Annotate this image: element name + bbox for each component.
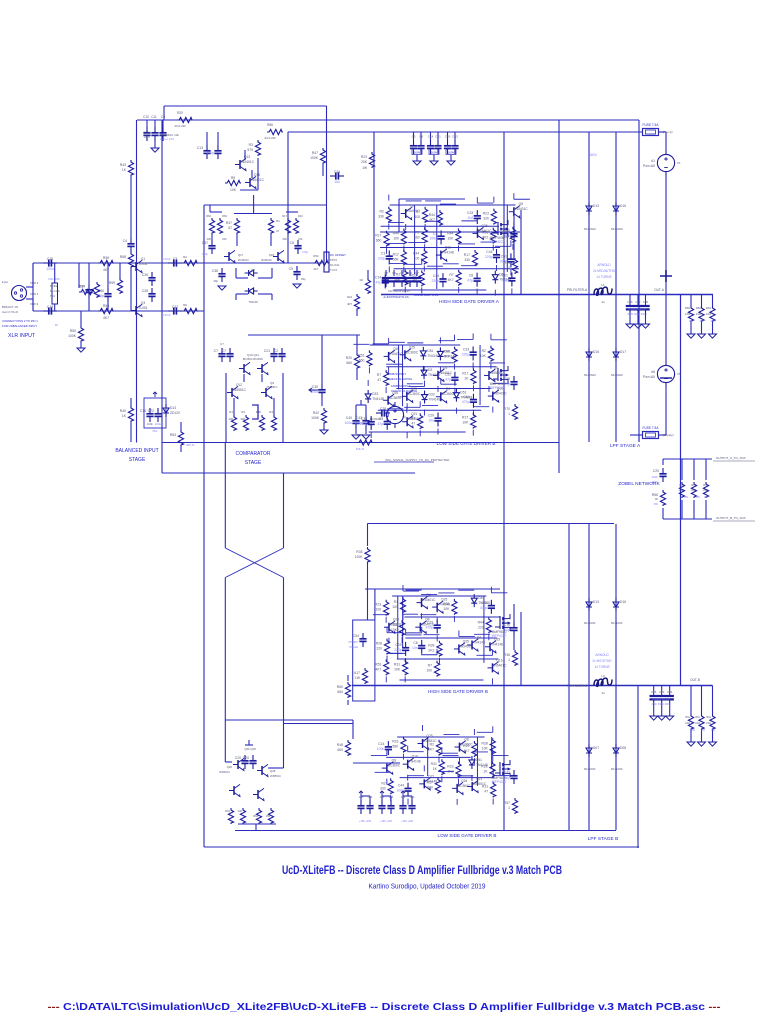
- svg-text:C37: C37: [202, 241, 208, 245]
- svg-text:56K: 56K: [393, 257, 400, 261]
- svg-text:160V: 160V: [589, 153, 597, 157]
- svg-text:C27: C27: [172, 305, 178, 309]
- svg-text:570: 570: [247, 148, 253, 152]
- svg-text:R42: R42: [313, 411, 319, 415]
- svg-text:C4: C4: [123, 239, 127, 243]
- svg-text:10K: 10K: [447, 236, 454, 240]
- svg-text:C3: C3: [379, 417, 383, 421]
- svg-text:R2: R2: [482, 349, 486, 353]
- svg-text:BC360C: BC360C: [408, 392, 421, 396]
- svg-text:10K: 10K: [480, 354, 487, 358]
- svg-text:R62: R62: [696, 306, 702, 310]
- svg-text:100: 100: [426, 669, 432, 673]
- svg-text:HIGH SIDE GATE DRIVER B: HIGH SIDE GATE DRIVER B: [428, 689, 488, 694]
- svg-text:660: 660: [346, 361, 352, 365]
- svg-text:Q4: Q4: [477, 635, 482, 639]
- svg-text:100n: 100n: [147, 422, 154, 426]
- svg-text:660: 660: [337, 748, 343, 752]
- svg-text:R20: R20: [346, 356, 352, 360]
- svg-text:4u: 4u: [601, 691, 605, 695]
- svg-text:R60: R60: [337, 685, 343, 689]
- svg-text:Q1: Q1: [141, 257, 146, 261]
- svg-text:R3: R3: [241, 410, 245, 414]
- svg-text:Q9: Q9: [270, 381, 274, 385]
- svg-text:390: 390: [240, 417, 245, 421]
- svg-text:TN4148: TN4148: [409, 760, 421, 764]
- svg-text:1W: 1W: [362, 166, 367, 170]
- svg-text:R57: R57: [504, 801, 510, 805]
- svg-text:BC360C: BC360C: [458, 784, 471, 788]
- svg-text:R23: R23: [392, 740, 398, 744]
- svg-text:Q25: Q25: [463, 639, 469, 643]
- svg-text:2N4401C: 2N4401C: [238, 258, 249, 262]
- svg-text:RL=10k: RL=10k: [330, 263, 340, 267]
- svg-text:220: 220: [376, 647, 382, 651]
- svg-text:R59: R59: [109, 281, 115, 285]
- svg-text:T=0.5: T=0.5: [330, 268, 337, 272]
- svg-text:330: 330: [380, 786, 386, 790]
- svg-text:Q20: Q20: [227, 765, 233, 769]
- svg-text:D7: D7: [415, 271, 419, 275]
- svg-text:4K7: 4K7: [103, 316, 109, 320]
- svg-text:C15: C15: [47, 257, 53, 261]
- svg-text:C76: C76: [504, 229, 510, 233]
- svg-text:4K7: 4K7: [443, 355, 449, 359]
- svg-text:TL051: TL051: [138, 262, 148, 266]
- svg-text:R64: R64: [253, 814, 258, 818]
- svg-text:D33: D33: [429, 393, 435, 397]
- svg-text:A17: A17: [354, 671, 360, 675]
- svg-text:330: 330: [483, 217, 489, 221]
- svg-text:1u: 1u: [81, 290, 85, 294]
- svg-text:A+5/157KNAP W GS: A+5/157KNAP W GS: [383, 295, 408, 299]
- svg-text:C14: C14: [378, 742, 384, 746]
- svg-text:2n2: 2n2: [468, 216, 474, 220]
- svg-text:24Ω: 24Ω: [706, 312, 711, 316]
- svg-text:1: 1: [508, 412, 510, 416]
- svg-text:5: 5: [394, 425, 396, 429]
- svg-text:3W: 3W: [704, 495, 708, 499]
- svg-text:C72: C72: [148, 409, 154, 413]
- svg-text:0.47uF: 0.47uF: [162, 257, 171, 261]
- svg-text:100n: 100n: [430, 236, 438, 240]
- svg-text:MURA60: MURA60: [584, 227, 596, 231]
- svg-text:Q25: Q25: [411, 387, 417, 391]
- svg-text:C21: C21: [435, 135, 441, 139]
- svg-text:C44: C44: [463, 395, 469, 399]
- svg-text:D33: D33: [372, 392, 378, 396]
- svg-text:XLR INPUT: XLR INPUT: [8, 333, 36, 339]
- svg-text:L2: L2: [601, 674, 605, 678]
- svg-text:100K: 100K: [311, 416, 320, 420]
- svg-text:100p: 100p: [502, 382, 510, 386]
- svg-text:10K: 10K: [482, 746, 489, 750]
- svg-text:RL=10k: RL=10k: [50, 289, 60, 293]
- svg-text:Pwr=A0: Pwr=A0: [643, 375, 655, 379]
- svg-text:Q16: Q16: [496, 658, 502, 662]
- svg-text:1W: 1W: [355, 676, 361, 680]
- svg-text:40,0.2W: 40,0.2W: [264, 136, 275, 140]
- svg-text:330: 330: [378, 215, 384, 219]
- svg-text:1K: 1K: [433, 767, 438, 771]
- svg-text:470n 630V 400V: 470n 630V 400V: [651, 702, 671, 706]
- svg-text:10K: 10K: [443, 607, 450, 611]
- svg-text:MURA60: MURA60: [611, 621, 623, 625]
- svg-text:R14: R14: [504, 261, 510, 265]
- svg-text:R63: R63: [222, 214, 227, 218]
- svg-text:24Ω: 24Ω: [695, 721, 700, 725]
- svg-text:+165 +160: +165 +160: [380, 820, 393, 823]
- svg-text:R61: R61: [225, 809, 230, 813]
- svg-text:Q4: Q4: [446, 387, 451, 391]
- svg-text:2N5401C: 2N5401C: [250, 178, 265, 182]
- svg-text:4K7: 4K7: [375, 667, 381, 671]
- svg-text:R63: R63: [706, 306, 712, 310]
- svg-text:R56: R56: [267, 123, 273, 127]
- svg-text:PC$1: PC$1: [50, 284, 57, 288]
- svg-text:ARNOLD: ARNOLD: [597, 263, 611, 267]
- svg-text:D51: D51: [427, 349, 433, 353]
- svg-text:C28: C28: [142, 289, 148, 293]
- svg-text:R44: R44: [393, 231, 399, 235]
- svg-text:220n: 220n: [652, 475, 659, 479]
- svg-text:R28: R28: [481, 764, 487, 768]
- svg-text:R35: R35: [356, 550, 362, 554]
- svg-text:1K: 1K: [464, 376, 469, 380]
- svg-text:10K: 10K: [230, 188, 237, 192]
- svg-text:660: 660: [427, 786, 433, 790]
- svg-text:150: 150: [266, 814, 271, 818]
- svg-text:C11: C11: [151, 115, 157, 119]
- svg-text:470p: 470p: [480, 606, 488, 610]
- svg-text:C74: C74: [140, 409, 146, 413]
- svg-text:C70: C70: [504, 623, 510, 627]
- svg-text:C29: C29: [395, 643, 401, 647]
- svg-text:24Ω: 24Ω: [685, 312, 690, 316]
- svg-text:R6x: R6x: [703, 483, 708, 487]
- svg-text:3W: 3W: [696, 495, 700, 499]
- svg-text:Q25: Q25: [409, 345, 415, 349]
- svg-text:3W: 3W: [699, 319, 704, 323]
- svg-text:25V: 25V: [153, 429, 158, 433]
- svg-text:TN4148: TN4148: [473, 640, 485, 644]
- svg-text:R43: R43: [120, 163, 126, 167]
- svg-text:R23: R23: [483, 212, 489, 216]
- svg-text:C8: C8: [419, 135, 423, 139]
- svg-text:3W: 3W: [701, 728, 705, 732]
- svg-text:C9: C9: [408, 271, 412, 275]
- svg-text:1: 1: [508, 266, 510, 270]
- svg-text:4K7: 4K7: [428, 748, 434, 752]
- svg-text:470p: 470p: [426, 625, 434, 629]
- svg-text:220p: 220p: [462, 352, 470, 356]
- svg-text:MURA60: MURA60: [584, 767, 596, 771]
- svg-text:100u: 100u: [344, 421, 352, 425]
- svg-text:R5x: R5x: [685, 715, 690, 719]
- svg-text:C30: C30: [312, 385, 318, 389]
- svg-text:C77: C77: [504, 771, 510, 775]
- svg-text:C33: C33: [452, 135, 458, 139]
- svg-text:R50: R50: [70, 329, 76, 333]
- svg-text:33K: 33K: [282, 237, 287, 241]
- svg-text:220p: 220p: [360, 422, 368, 426]
- svg-text:#6: #6: [651, 370, 655, 374]
- svg-text:C33: C33: [463, 347, 469, 351]
- svg-text:C8: C8: [290, 241, 294, 245]
- svg-text:40,0.2W: 40,0.2W: [174, 124, 185, 128]
- svg-text:R17: R17: [282, 214, 287, 218]
- svg-text:R7: R7: [449, 273, 453, 277]
- svg-text:D08: D08: [620, 746, 626, 750]
- svg-text:+165 +160: +165 +160: [401, 820, 414, 823]
- svg-text:Q16: Q16: [412, 755, 418, 759]
- svg-text:C18: C18: [47, 305, 53, 309]
- svg-text:R31: R31: [482, 231, 488, 235]
- svg-text:10K: 10K: [394, 667, 401, 671]
- svg-text:160B SUPPLY: 160B SUPPLY: [388, 372, 406, 376]
- svg-text:100: 100: [392, 605, 398, 609]
- svg-text:2N5551C: 2N5551C: [267, 385, 278, 389]
- svg-text:R31: R31: [431, 762, 437, 766]
- svg-text:Q4: Q4: [426, 593, 431, 597]
- svg-text:ZOBEL NETWORK: ZOBEL NETWORK: [618, 481, 660, 487]
- svg-text:C38: C38: [212, 269, 218, 273]
- svg-text:IRFP4227: IRFP4227: [490, 240, 505, 244]
- svg-text:R7: R7: [411, 416, 415, 420]
- svg-text:C34: C34: [368, 796, 373, 799]
- svg-text:D44: D44: [478, 596, 484, 600]
- svg-text:R31: R31: [394, 662, 400, 666]
- svg-text:660: 660: [376, 239, 382, 243]
- svg-text:IRFP4227: IRFP4227: [490, 386, 505, 390]
- svg-text:100u: 100u: [46, 267, 54, 271]
- svg-text:R9: R9: [231, 176, 235, 180]
- svg-text:OUT-B: OUT-B: [690, 678, 700, 682]
- svg-text:Q8: Q8: [519, 202, 524, 206]
- svg-text:C76: C76: [651, 690, 657, 694]
- svg-text:R56: R56: [103, 256, 109, 260]
- svg-text:400V 400V 630V: 400V 400V 630V: [627, 312, 647, 316]
- svg-text:R2: R2: [430, 743, 434, 747]
- svg-text:C20: C20: [653, 469, 659, 473]
- svg-text:Q16: Q16: [392, 391, 398, 395]
- svg-text:4R7: 4R7: [347, 302, 352, 306]
- svg-text:Aver 0.70u D: Aver 0.70u D: [2, 310, 18, 314]
- svg-text:Q3: Q3: [141, 301, 146, 305]
- svg-text:370SPF: 370SPF: [348, 640, 358, 644]
- svg-text:2N5401C: 2N5401C: [219, 770, 230, 774]
- svg-text:STAGE: STAGE: [245, 460, 262, 466]
- svg-text:47p: 47p: [376, 280, 382, 284]
- svg-text:STAGE: STAGE: [129, 457, 146, 463]
- svg-text:R7: R7: [416, 210, 420, 214]
- svg-text:C7: C7: [214, 349, 218, 353]
- svg-text:C33: C33: [359, 796, 364, 799]
- svg-text:56K: 56K: [392, 745, 399, 749]
- svg-text:R23: R23: [375, 603, 381, 607]
- svg-text:C44: C44: [398, 784, 404, 788]
- svg-text:COMPARATOR: COMPARATOR: [235, 451, 270, 457]
- svg-text:Q8: Q8: [464, 738, 469, 742]
- svg-text:R12: R12: [393, 252, 399, 256]
- svg-text:10u: 10u: [334, 180, 340, 184]
- svg-text:R1: R1: [394, 600, 398, 604]
- svg-text:V5: V5: [677, 372, 681, 376]
- svg-text:2K7: 2K7: [314, 267, 319, 271]
- svg-text:TN4148: TN4148: [372, 397, 384, 401]
- svg-text:C40: C40: [346, 416, 352, 420]
- svg-text:Q4: Q4: [410, 204, 415, 208]
- svg-text:TN4148: TN4148: [248, 300, 258, 304]
- svg-text:47: 47: [411, 421, 415, 425]
- svg-text:3W: 3W: [691, 728, 695, 732]
- svg-text:47p: 47p: [467, 279, 473, 283]
- svg-text:100: 100: [393, 236, 399, 240]
- svg-text:R6x: R6x: [691, 483, 696, 487]
- svg-text:C8: C8: [413, 641, 417, 645]
- svg-text:2N5401C: 2N5401C: [493, 392, 508, 396]
- svg-text:Q21: Q21: [476, 777, 482, 781]
- svg-text:IRFP4227: IRFP4227: [492, 780, 507, 784]
- svg-text:C20: C20: [235, 756, 241, 760]
- svg-text:R7: R7: [428, 664, 432, 668]
- svg-text:C8: C8: [384, 271, 388, 275]
- svg-text:24Ω: 24Ω: [703, 488, 708, 492]
- svg-text:2x MS106/THD: 2x MS106/THD: [593, 269, 615, 273]
- svg-text:V3: V3: [402, 415, 406, 419]
- svg-text:470p: 470p: [206, 151, 214, 155]
- svg-text:BC360C: BC360C: [442, 392, 455, 396]
- svg-text:TL051: TL051: [138, 306, 148, 310]
- svg-text:PRI-FILTER-A: PRI-FILTER-A: [567, 288, 588, 292]
- svg-text:4K7: 4K7: [448, 278, 454, 282]
- svg-text:D15: D15: [593, 350, 599, 354]
- svg-text:330: 330: [464, 258, 470, 262]
- svg-text:25V: 25V: [144, 135, 151, 139]
- svg-text:C54: C54: [353, 634, 359, 638]
- svg-text:BC360C: BC360C: [389, 396, 402, 400]
- svg-text:LPF STAGE A: LPF STAGE A: [610, 443, 641, 449]
- svg-text:1K: 1K: [483, 769, 488, 773]
- svg-text:(SG)_SIGNAL_SUPPLY_TO_DC_PROTE: (SG)_SIGNAL_SUPPLY_TO_DC_PROTECTED: [385, 458, 450, 462]
- svg-text:STAGE: STAGE: [349, 645, 358, 649]
- svg-text:R1: R1: [393, 623, 397, 627]
- svg-text:BC360C: BC360C: [388, 764, 401, 768]
- svg-text:2N5401C: 2N5401C: [493, 663, 508, 667]
- svg-text:C2: C2: [274, 349, 278, 353]
- svg-text:Q8: Q8: [392, 759, 397, 763]
- svg-text:660: 660: [414, 235, 420, 239]
- svg-text:C3: C3: [400, 271, 404, 275]
- svg-text:R70: R70: [504, 407, 510, 411]
- svg-text:D07: D07: [593, 746, 599, 750]
- svg-text:D16: D16: [620, 600, 626, 604]
- svg-text:A+5/157KNAP W GS: A+5/157KNAP W GS: [414, 293, 439, 297]
- svg-text:VOL-10K: VOL-10K: [48, 277, 60, 281]
- svg-text:3W: 3W: [684, 495, 688, 499]
- svg-text:R48: R48: [337, 743, 343, 747]
- svg-text:C51: C51: [445, 373, 451, 377]
- svg-text:R7: R7: [415, 230, 419, 234]
- svg-text:MURA60: MURA60: [611, 227, 623, 231]
- svg-text:Kartino Surodipo, Updated Octo: Kartino Surodipo, Updated October 2019: [369, 882, 486, 891]
- svg-text:HIGH SIDE GATE DRIVER A: HIGH SIDE GATE DRIVER A: [439, 299, 500, 304]
- svg-text:C9: C9: [161, 115, 165, 119]
- svg-text:R17: R17: [462, 416, 468, 420]
- svg-text:--- C:\DATA\LTC\Simulation\Uc: --- C:\DATA\LTC\Simulation\UcD_XLite2FB\…: [48, 1002, 722, 1013]
- svg-text:Q17: Q17: [238, 253, 244, 257]
- svg-text:OUTPUT_B_TO_SCP: OUTPUT_B_TO_SCP: [716, 516, 746, 520]
- svg-text:TN4148: TN4148: [491, 642, 503, 646]
- svg-text:C27: C27: [635, 300, 641, 304]
- svg-text:10K: 10K: [462, 421, 469, 425]
- svg-text:470p: 470p: [462, 400, 470, 404]
- svg-text:ARNOLD: ARNOLD: [595, 653, 609, 657]
- svg-text:R2: R2: [360, 278, 364, 282]
- svg-text:Q16: Q16: [445, 246, 451, 250]
- svg-text:2N5401C: 2N5401C: [240, 160, 255, 164]
- svg-text:Q8: Q8: [393, 347, 398, 351]
- svg-text:TN4148: TN4148: [429, 398, 441, 402]
- svg-text:R28: R28: [376, 642, 382, 646]
- svg-text:24Ω: 24Ω: [685, 721, 690, 725]
- svg-text:V1: V1: [677, 161, 681, 165]
- svg-text:100: 100: [375, 608, 381, 612]
- svg-text:1: 1: [508, 806, 510, 810]
- svg-text:3W: 3W: [710, 319, 715, 323]
- svg-text:R44: R44: [443, 350, 449, 354]
- svg-text:C73: C73: [659, 690, 665, 694]
- svg-text:160V: 160V: [431, 151, 438, 155]
- svg-text:24Ω: 24Ω: [679, 488, 684, 492]
- svg-text:2x MS 5/THD: 2x MS 5/THD: [592, 659, 612, 663]
- svg-text:100n: 100n: [377, 747, 385, 751]
- svg-text:+165 +160: +165 +160: [359, 820, 372, 823]
- svg-text:660: 660: [337, 690, 343, 694]
- svg-text:D4: D4: [392, 271, 396, 275]
- svg-text:C33: C33: [361, 417, 367, 421]
- svg-text:Pwr=A0: Pwr=A0: [643, 164, 655, 168]
- svg-text:DC OFFSET: DC OFFSET: [330, 253, 346, 257]
- svg-text:14 TURNS: 14 TURNS: [594, 665, 609, 669]
- svg-text:R28: R28: [482, 741, 488, 745]
- svg-text:R31: R31: [482, 785, 488, 789]
- svg-text:C64: C64: [667, 690, 673, 694]
- svg-text:10n: 10n: [428, 418, 434, 422]
- svg-text:BC360C: BC360C: [406, 350, 419, 354]
- svg-text:LOW SIDE GATE DRIVER B: LOW SIDE GATE DRIVER B: [438, 833, 497, 838]
- svg-text:D13: D13: [170, 406, 176, 410]
- svg-text:FUSE 7.5A: FUSE 7.5A: [643, 123, 660, 127]
- svg-text:100p: 100p: [502, 776, 510, 780]
- svg-text:C9: C9: [289, 267, 293, 271]
- svg-text:2K2: 2K2: [428, 649, 434, 653]
- svg-text:T=4: T=4: [50, 294, 55, 298]
- svg-text:R66: R66: [685, 306, 691, 310]
- svg-text:1: 1: [508, 658, 510, 662]
- svg-text:C33: C33: [380, 796, 385, 799]
- svg-text:220p: 220p: [378, 256, 386, 260]
- svg-text:Rt: Rt: [55, 323, 58, 327]
- svg-text:220p: 220p: [485, 255, 493, 259]
- svg-text:R4: R4: [269, 410, 273, 414]
- svg-text:POT2: POT2: [330, 258, 338, 262]
- svg-text:2N5401C: 2N5401C: [422, 598, 437, 602]
- svg-text:C7: C7: [220, 342, 224, 346]
- svg-text:100: 100: [238, 809, 243, 813]
- svg-text:47p: 47p: [378, 422, 384, 426]
- svg-text:LPF STAGE B: LPF STAGE B: [588, 836, 619, 842]
